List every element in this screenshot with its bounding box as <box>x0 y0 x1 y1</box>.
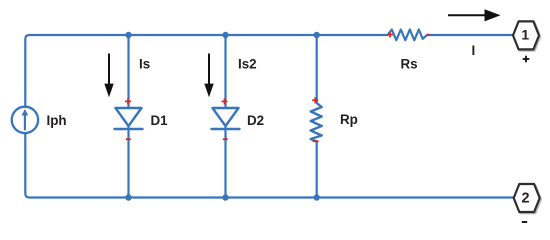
polarity + above D2 <box>222 98 228 104</box>
node junction dot bottom Rp <box>314 194 320 200</box>
svg-text:1: 1 <box>521 26 529 42</box>
wire D2 branch lower <box>224 124 226 198</box>
svg-text:Iph: Iph <box>47 113 67 128</box>
wire D2 branch upper <box>224 35 226 108</box>
polarity + above D1 <box>125 98 131 104</box>
wire D1 branch lower <box>127 124 129 198</box>
node junction dot bottom D2 <box>222 194 228 200</box>
current source Iph <box>12 107 38 133</box>
node junction dot top D2 <box>222 32 228 38</box>
wire top rail with Rs zigzag <box>25 30 513 107</box>
node junction dot bottom D1 <box>125 194 131 200</box>
plus sign below port 1 <box>523 56 530 63</box>
wire Rp branch upper <box>316 35 318 104</box>
polarity - below D1 <box>126 138 131 140</box>
current arrow Is <box>104 54 113 98</box>
polarity - right of Rs <box>427 34 430 36</box>
svg-text:I: I <box>472 43 476 58</box>
current arrow Is2 <box>204 54 213 98</box>
svg-text:D2: D2 <box>247 113 264 128</box>
polarity + above Rp <box>312 97 318 103</box>
resistor Rp <box>311 103 322 142</box>
minus sign below port 2 <box>522 221 527 223</box>
polarity - below D2 <box>223 138 228 140</box>
output current arrow I <box>448 9 501 21</box>
wire D1 branch upper <box>127 35 129 108</box>
svg-text:Is2: Is2 <box>238 57 257 72</box>
diode D2 <box>212 108 240 129</box>
svg-text:Rs: Rs <box>401 57 418 72</box>
svg-text:D1: D1 <box>151 113 169 128</box>
wire Rp branch lower <box>316 141 318 198</box>
port 2 <box>514 184 541 213</box>
svg-text:Is: Is <box>139 57 150 72</box>
svg-text:2: 2 <box>521 190 529 206</box>
polarity + left of Rs <box>387 32 393 38</box>
wire bottom rail <box>25 133 514 197</box>
port 1 <box>513 21 540 50</box>
node junction dot top Rp <box>314 32 320 38</box>
node junction dot top D1 <box>125 32 131 38</box>
diode D1 <box>115 108 143 129</box>
svg-text:Rp: Rp <box>340 112 358 127</box>
polarity - below Rp <box>313 140 319 142</box>
